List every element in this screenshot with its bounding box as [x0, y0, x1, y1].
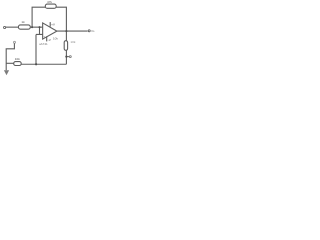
svg-text:+: +: [43, 34, 45, 38]
svg-text:uA741: uA741: [39, 42, 48, 46]
svg-text:1k: 1k: [21, 20, 25, 24]
svg-text:Vo: Vo: [91, 29, 95, 33]
svg-text:+V: +V: [51, 23, 56, 27]
svg-text:10k: 10k: [53, 37, 58, 41]
svg-text:47k: 47k: [47, 0, 52, 4]
svg-text:-V: -V: [48, 38, 52, 42]
svg-text:10k: 10k: [15, 57, 20, 61]
svg-text:10k: 10k: [70, 40, 75, 44]
